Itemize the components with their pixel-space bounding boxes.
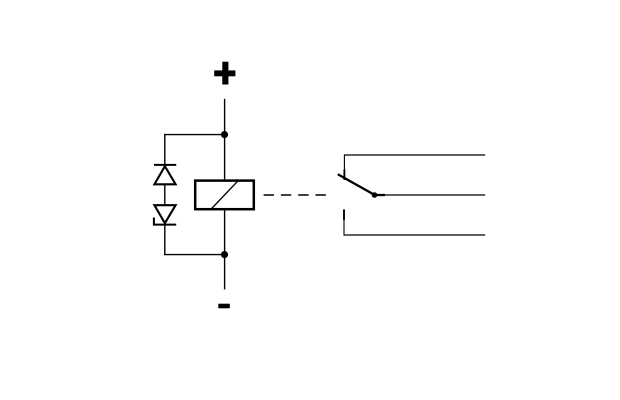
switch armature arm — [338, 174, 375, 195]
NO contact tip — [343, 209, 345, 220]
NC contact top wire — [344, 154, 485, 156]
mechanical link (dashed) from coil to contacts — [264, 194, 327, 196]
node: top junction — [221, 131, 228, 138]
wire: top junction down to coil — [224, 135, 226, 180]
zener diode D2 cathode bar with bend — [154, 218, 176, 225]
wire: + terminal down to top junction — [224, 99, 226, 135]
wire: left branch upper segment — [164, 135, 166, 166]
zener diode D2 triangle — [154, 205, 175, 223]
relay coil K1 diagonal — [210, 180, 238, 210]
relay coil K1 body — [195, 181, 254, 210]
wire: bottom junction down to - terminal — [224, 255, 226, 290]
NO contact vertical stub — [343, 219, 345, 235]
NO contact bottom wire — [344, 234, 486, 236]
node: armature pivot dot — [372, 192, 378, 198]
wire: coil to bottom junction — [224, 211, 226, 255]
diode D1 triangle — [154, 166, 175, 184]
wire: between diode D1 and zener D2 — [164, 185, 166, 205]
NC contact tip — [343, 170, 345, 181]
- supply terminal — [218, 304, 230, 309]
NC contact vertical stub — [343, 154, 345, 170]
node: bottom junction — [221, 251, 228, 258]
wire: bottom horizontal from diode branch — [164, 254, 225, 256]
diode D1 cathode bar — [154, 164, 176, 166]
common terminal stub — [375, 194, 386, 196]
wire: top horizontal to diode branch — [164, 134, 225, 136]
common wire — [385, 194, 485, 196]
+ supply terminal — [214, 62, 235, 85]
wire: left branch lower segment — [164, 225, 166, 255]
